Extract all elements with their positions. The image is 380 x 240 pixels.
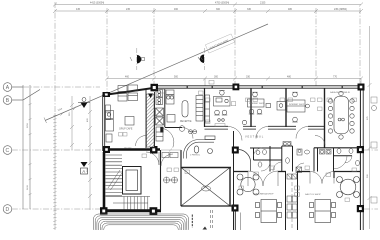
hatched shaft wall strip (147, 94, 155, 147)
grid line x=154 (153, 8, 155, 92)
west wall lower (poche) (103, 152, 106, 210)
double door arcs right room (310, 172, 334, 184)
interior wall kitchen east x=154.5 (154, 92, 156, 148)
west wall upper (103, 95, 105, 152)
office 1 desk (214, 97, 236, 107)
right meeting table (310, 200, 336, 223)
svg-text:D: D (6, 207, 10, 213)
svg-text:300: 300 (214, 76, 219, 79)
floor drain box corridor (296, 167, 302, 173)
receptie room south wall with door (165, 127, 182, 129)
grid line C horizontal (12, 149, 103, 151)
benchmark symbol upper (78, 98, 90, 109)
X-void wall left (180, 150, 182, 206)
chip on dim line (209, 81, 214, 85)
top wall (151, 86, 364, 88)
svg-text:330: 330 (246, 76, 251, 79)
svg-text:480: 480 (288, 8, 293, 11)
column top-right (358, 84, 365, 91)
office 2 chairs (242, 92, 270, 125)
reception curved counter (183, 136, 215, 159)
column B1 (top x=235) (233, 84, 240, 91)
grid bubble A (3, 83, 23, 92)
dimension line row 2 (53, 9, 363, 13)
section marker B left (130, 48, 145, 70)
toilet door arcs (254, 148, 353, 171)
column C3 (corridor x=235) (232, 147, 239, 154)
reception shelf (196, 96, 203, 122)
right vertical dimension line (368, 26, 372, 229)
cafe door arc (136, 136, 147, 147)
grid line x=360 (359, 8, 361, 84)
entry edge line right (240, 213, 242, 231)
stair flight south treads (106, 197, 151, 210)
plot boundary diagonal (45, 24, 268, 121)
window label chips right side (371, 97, 377, 203)
ticks on property line x=30 (29, 104, 32, 196)
entry mat mark (203, 227, 208, 230)
X-void center ellipse (202, 186, 211, 191)
column at west end of sloped wall (103, 92, 111, 97)
misc tiny label chips interior (142, 90, 357, 202)
wall x=160-161 stair hall east (160, 150, 162, 211)
column C2 (stair top wall east) (150, 146, 158, 154)
left dim line x=90 (88, 96, 92, 210)
kitchen shaft X-boxes (156, 108, 164, 125)
kitchen appliances (156, 90, 163, 142)
office 1 shelf (205, 95, 210, 122)
office 3 chairs (292, 92, 322, 122)
fence ticks on x=55 line (53, 115, 56, 228)
stair: elevator shaft (123, 167, 142, 195)
chips below cafe table (119, 133, 123, 137)
svg-text:2155: 2155 (260, 2, 266, 5)
chips left of right room (295, 186, 300, 190)
svg-text:300: 300 (216, 8, 221, 11)
office divider x=286 (285, 88, 287, 127)
interior wall x=164.8 (164, 89, 166, 127)
X-void rectangle (181, 168, 230, 207)
stair break bar (108, 170, 122, 190)
grid bubble C (3, 146, 12, 155)
round table left with chairs (237, 174, 259, 195)
tiny rotated dims on x=30 (27, 123, 29, 190)
svg-text:A: A (82, 169, 85, 174)
svg-text:SAL POL SHOP: SAL POL SHOP (305, 193, 321, 196)
grid bubble D (3, 205, 12, 214)
property line west 1 (22, 85, 24, 209)
round table right with chairs (337, 177, 360, 198)
section marker B right (198, 48, 204, 70)
entry edge line left (191, 215, 193, 228)
conference table (334, 97, 349, 134)
grid bubble B (3, 90, 40, 105)
conference bottom wall y=147.5 (314, 147, 360, 149)
svg-text:460: 460 (174, 8, 179, 11)
svg-text:4415 (30054): 4415 (30054) (90, 2, 104, 5)
toilet block walls right (314, 148, 352, 172)
shaft centerline dashed (291, 176, 293, 230)
svg-text:480: 480 (287, 76, 292, 79)
svg-text:460: 460 (125, 76, 130, 79)
grid line x=55 (54, 2, 56, 230)
svg-text:770: 770 (333, 76, 338, 79)
ticks on diagonal (44, 107, 76, 124)
svg-text:GRUP CAFE: GRUP CAFE (119, 128, 133, 131)
shaft walls center (286, 171, 298, 230)
GRUP CAFE room furniture: sofas (106, 85, 138, 142)
stair hall bottom wall (100, 209, 161, 212)
stair flight west treads (106, 155, 123, 196)
spotlights vestibule (179, 126, 197, 134)
svg-text:245: 245 (126, 8, 131, 11)
column D1 (stair bottom west) (100, 207, 108, 215)
small room east of stairs: spot circles (162, 153, 178, 184)
svg-text:SAL OMEGA SHOP: SAL OMEGA SHOP (254, 193, 274, 196)
dim string y=150 vestibule (161, 149, 181, 152)
svg-text:4750 (35054): 4750 (35054) (215, 2, 229, 5)
toilet block walls left (234, 146, 293, 230)
svg-text:RECEPTIE: RECEPTIE (180, 121, 192, 123)
toilet fixtures left block (256, 142, 291, 168)
vestibule curved wall (239, 150, 251, 172)
wall x=181 lower stub / door arc vestibule (161, 154, 173, 166)
column D3 (x=235 lower) (232, 205, 239, 212)
office 3 desk (287, 100, 305, 112)
grid line C right stub (364, 149, 378, 151)
east wall (360, 85, 363, 230)
sloped northwest wall (104, 88, 152, 95)
toilet fixtures right block (297, 149, 359, 166)
grid line D right stub (364, 208, 378, 210)
window mullion dots on top wall (187, 86, 344, 88)
column A1 (top-left, sloped wall) (151, 84, 159, 92)
top dim line above building (105, 77, 363, 87)
grid line x=235 (234, 8, 236, 86)
X-void wall top (181, 167, 231, 169)
property line west 2 (29, 85, 31, 209)
entrance canopy dashed lines (210, 210, 212, 230)
svg-text:VESTIBUL: VESTIBUL (245, 135, 264, 139)
office divider x=251 (250, 88, 252, 127)
left dim line x=72 (70, 96, 74, 150)
left meeting table (256, 200, 282, 223)
stair hall door arc (146, 152, 159, 165)
left dim rotated texts (69, 112, 369, 178)
entrance side wall right of column (234, 212, 236, 231)
chip above shelf (199, 91, 204, 95)
kitchen door arc (163, 129, 174, 148)
office label chips (206, 98, 357, 124)
dimension texts top (76, 2, 347, 11)
svg-text:C: C (6, 148, 10, 154)
small tree symbol right (372, 106, 377, 111)
X-void wall right (229, 168, 231, 207)
svg-text:330: 330 (247, 8, 252, 11)
interior wall kitchen west x=146 (145, 89, 147, 148)
corridor bottom wall y=171.5 (234, 172, 361, 179)
office 2 desk (248, 99, 286, 110)
svg-text:1 PERSOL: 1 PERSOL (190, 155, 201, 157)
office divider x=324.5 (324, 88, 326, 148)
section marker A (81, 162, 88, 174)
column C4 (east wall y=150) (357, 146, 364, 153)
svg-text:INTERNET SHOP: INTERNET SHOP (249, 103, 265, 105)
stair hall top wall (104, 148, 160, 151)
column D4 (east wall lower) (357, 205, 364, 212)
office door arcs (228, 127, 325, 146)
reception oval table (182, 101, 188, 118)
black mark below column A1 (148, 94, 153, 99)
svg-text:445: 445 (76, 8, 81, 11)
terrace paving nested outlines (94, 214, 189, 240)
conference chairs (328, 91, 354, 139)
vulcanizare label box on diagonal (205, 34, 234, 53)
dimension line row 1 (53, 3, 363, 7)
corridor wall stub above column C3 (233, 131, 235, 147)
office 1 chairs (214, 91, 227, 127)
offices bottom wall segments y=126.5 (double) (205, 126, 325, 129)
svg-text:500: 500 (174, 76, 179, 79)
receptie room storage boxes (166, 90, 175, 122)
grid line x=107 (106, 8, 108, 95)
svg-text:INTERNET SHOP: INTERNET SHOP (289, 104, 305, 106)
grid line x=316 (315, 8, 317, 86)
column C-left (stair top wall west) (103, 146, 110, 153)
svg-text:245 (29854): 245 (29854) (334, 8, 347, 11)
double door arcs left room (248, 171, 278, 186)
interior wall x=204 (offices west) (204, 88, 206, 127)
shaft boxes (287, 174, 297, 218)
svg-text:140 120: 140 120 (124, 148, 132, 150)
column D2 (stair bottom east) (150, 207, 158, 215)
grid line A horizontal (23, 86, 100, 88)
receptie door arc (182, 128, 193, 139)
grid line D horizontal (12, 208, 100, 210)
X-void wall bottom (181, 205, 235, 207)
